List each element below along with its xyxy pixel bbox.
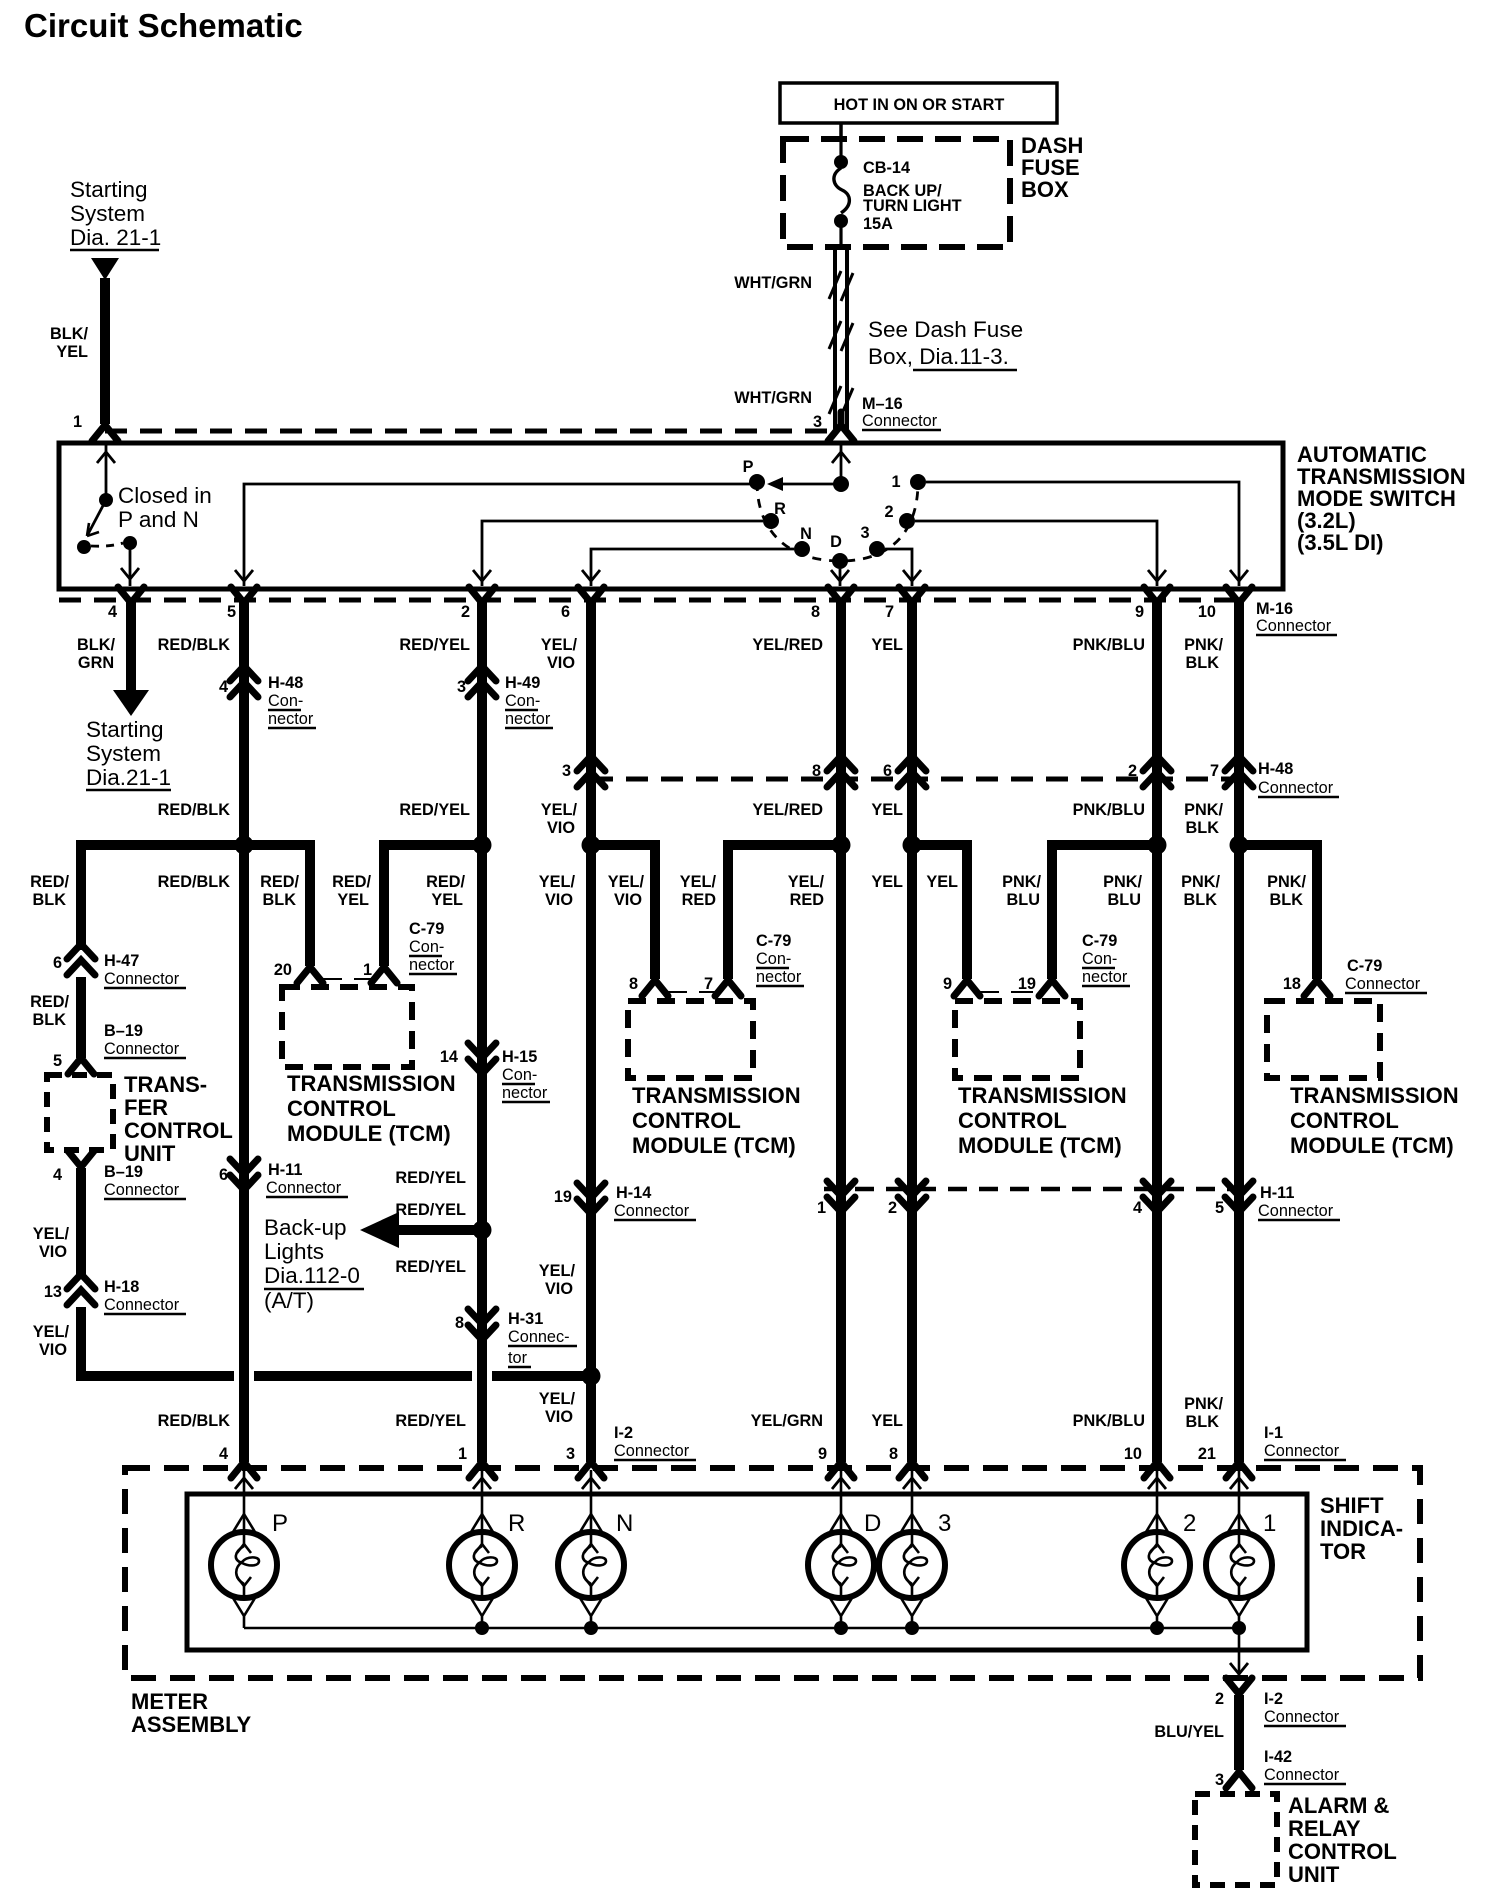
svg-text:RED/YEL: RED/YEL	[395, 1201, 466, 1219]
svg-text:H-11: H-11	[268, 1161, 302, 1179]
svg-text:5: 5	[1215, 1199, 1224, 1217]
svg-text:YEL/RED: YEL/RED	[752, 636, 823, 654]
svg-text:Connector: Connector	[104, 1040, 180, 1058]
svg-text:PNK/BLU: PNK/BLU	[1073, 1412, 1145, 1430]
svg-text:RED/BLK: RED/BLK	[158, 873, 231, 891]
connector line TCM2 pins	[665, 991, 718, 993]
connector H-49 pin 3	[457, 666, 553, 728]
wire bus to meter exit	[1230, 1628, 1248, 1677]
svg-text:1: 1	[458, 1445, 467, 1463]
svg-text:20: 20	[274, 961, 292, 979]
svg-text:YEL: YEL	[871, 636, 903, 654]
svg-text:(3.5L DI): (3.5L DI)	[1297, 530, 1383, 555]
pin 3 I-42	[1215, 1759, 1252, 1789]
pin 20 C-79	[274, 954, 323, 983]
transfer control unit box	[47, 1075, 113, 1150]
svg-text:YEL: YEL	[926, 873, 958, 891]
label I-2 connector bottom	[1264, 1690, 1346, 1726]
automatic transmission mode switch box	[59, 443, 1283, 589]
node backup lights junction	[473, 1221, 492, 1240]
svg-text:PNK/: PNK/	[1184, 636, 1223, 654]
label H-48 connector right	[1258, 760, 1339, 797]
svg-text:Connector: Connector	[1258, 779, 1334, 797]
label dash fuse box	[1021, 133, 1083, 202]
switch wiper arm	[767, 477, 841, 491]
lamp D	[808, 1470, 881, 1628]
pin 19 C-79 TCM3	[1018, 967, 1065, 996]
svg-text:TRANS-: TRANS-	[124, 1072, 207, 1097]
label YEL/RED x728	[680, 873, 717, 909]
svg-text:nector: nector	[502, 1084, 548, 1102]
svg-text:H-18: H-18	[104, 1278, 139, 1296]
label RED/YEL x384	[332, 873, 371, 909]
pin 2 I-2 bottom	[1215, 1678, 1252, 1708]
node junction YEL/VIO	[582, 836, 601, 855]
label YEL/VIO left lower	[33, 1323, 70, 1359]
pin D meter entry	[828, 1449, 854, 1478]
svg-text:PNK/: PNK/	[1181, 873, 1220, 891]
dash fuse box	[783, 139, 1010, 247]
svg-text:Connector: Connector	[1264, 1708, 1340, 1726]
label C-79 connector TCM4	[1345, 957, 1427, 993]
svg-text:H-15: H-15	[502, 1048, 537, 1066]
svg-text:YEL/: YEL/	[33, 1323, 70, 1341]
svg-text:nector: nector	[505, 710, 551, 728]
label meter assembly	[131, 1689, 252, 1737]
svg-text:H-11: H-11	[1260, 1184, 1294, 1202]
svg-text:TRANSMISSION: TRANSMISSION	[1290, 1083, 1459, 1108]
svg-text:Con-: Con-	[409, 938, 444, 956]
svg-text:19: 19	[1018, 975, 1036, 993]
svg-text:PNK/: PNK/	[1002, 873, 1041, 891]
svg-text:nector: nector	[268, 710, 314, 728]
connector H-15 pin 14	[440, 1043, 550, 1102]
svg-text:21: 21	[1198, 1445, 1216, 1463]
svg-text:M-16: M-16	[1256, 600, 1293, 618]
connector B-19 pin 5	[53, 1022, 186, 1074]
svg-text:RED/BLK: RED/BLK	[158, 801, 231, 819]
svg-text:Connec-: Connec-	[508, 1328, 570, 1346]
wire YEL/VIO x591 to meter	[586, 845, 596, 1462]
svg-text:ALARM &: ALARM &	[1288, 1793, 1390, 1818]
svg-text:1: 1	[73, 413, 82, 431]
label BLK/GRN	[77, 636, 115, 672]
wire contact P to pin 5	[235, 484, 750, 586]
svg-text:Con-: Con-	[1082, 950, 1117, 968]
note backup lights	[264, 1215, 364, 1313]
svg-text:nector: nector	[756, 968, 802, 986]
lamp 2	[1124, 1470, 1196, 1628]
svg-text:2: 2	[888, 1199, 897, 1217]
wire YEL/VIO bus right	[492, 1371, 588, 1381]
svg-text:RED/: RED/	[30, 993, 69, 1011]
wire BLK/YEL	[100, 278, 110, 424]
wire RED/YEL x482 to meter	[477, 845, 487, 1462]
label transfer control unit	[124, 1072, 233, 1166]
svg-text:BLK: BLK	[1184, 891, 1218, 909]
label I-1 connector	[1264, 1424, 1346, 1460]
svg-text:YEL: YEL	[56, 343, 88, 361]
svg-text:CONTROL: CONTROL	[632, 1108, 741, 1133]
pin 10 M-16	[1198, 587, 1252, 621]
svg-text:2: 2	[1183, 1510, 1196, 1537]
svg-text:VIO: VIO	[545, 891, 573, 909]
wire RED/BLK left column upper	[76, 845, 86, 950]
svg-text:PNK/: PNK/	[1267, 873, 1306, 891]
svg-text:P: P	[272, 1510, 288, 1537]
svg-text:18: 18	[1283, 975, 1301, 993]
svg-text:BLK: BLK	[1270, 891, 1304, 909]
svg-text:4: 4	[219, 678, 228, 696]
svg-text:BLU/YEL: BLU/YEL	[1154, 1723, 1224, 1741]
svg-text:RED/YEL: RED/YEL	[395, 1258, 466, 1276]
svg-text:CONTROL: CONTROL	[287, 1096, 396, 1121]
svg-text:Connector: Connector	[1258, 1202, 1334, 1220]
svg-text:nector: nector	[1082, 968, 1128, 986]
svg-text:YEL/: YEL/	[608, 873, 645, 891]
node bus N	[584, 1621, 598, 1635]
label CB-14 value	[863, 159, 962, 233]
hot in on or start box	[780, 83, 1057, 123]
wire branch bus PNK/BLK	[1239, 845, 1317, 979]
svg-text:RED/YEL: RED/YEL	[395, 1412, 466, 1430]
svg-text:BLK/: BLK/	[77, 636, 115, 654]
svg-text:B–19: B–19	[104, 1163, 143, 1181]
svg-text:H-48: H-48	[1258, 760, 1293, 778]
svg-text:UNIT: UNIT	[1288, 1862, 1340, 1887]
svg-text:4: 4	[53, 1166, 62, 1184]
note closed in P and N	[118, 483, 212, 532]
svg-text:YEL: YEL	[871, 873, 903, 891]
wire PNK/BLU pin9 down	[1152, 601, 1162, 845]
svg-text:BLK: BLK	[263, 891, 297, 909]
svg-text:D: D	[830, 533, 842, 551]
contact D	[830, 533, 848, 569]
contact 2	[884, 503, 915, 529]
label PNK/BLK row2	[1184, 801, 1223, 837]
svg-text:2: 2	[1128, 762, 1137, 780]
svg-text:MODULE (TCM): MODULE (TCM)	[632, 1133, 796, 1158]
svg-text:P: P	[743, 458, 754, 476]
label PNK/BLK x1317	[1267, 873, 1306, 909]
wire break marks	[829, 271, 853, 416]
svg-text:H-49: H-49	[505, 674, 540, 692]
wire YEL/VIO pin6 down	[586, 601, 596, 845]
svg-text:19: 19	[554, 1188, 572, 1206]
pin 3 H-48	[562, 756, 605, 787]
svg-text:Closed in: Closed in	[118, 483, 212, 508]
label PNK/BLK pin10	[1184, 636, 1223, 672]
svg-text:BOX: BOX	[1021, 177, 1069, 202]
svg-text:RED/BLK: RED/BLK	[158, 1412, 231, 1430]
lamp P	[211, 1470, 288, 1628]
svg-text:Circuit Schematic: Circuit Schematic	[24, 7, 303, 44]
wire contact N to pin 6	[582, 549, 794, 586]
label H-11 connector right	[1258, 1184, 1340, 1220]
wire common from pin3	[832, 445, 850, 478]
node bus 2	[1150, 1621, 1164, 1635]
svg-text:PNK/BLU: PNK/BLU	[1073, 801, 1145, 819]
wire PNK/BLK x1239 to meter	[1234, 845, 1244, 1462]
pin 1 H-11	[817, 1181, 855, 1217]
contact 3	[860, 524, 885, 557]
node junction PNK/BLK	[1230, 836, 1249, 855]
svg-text:RELAY: RELAY	[1288, 1816, 1361, 1841]
wire RED/BLK to B-19	[76, 977, 86, 1058]
connector line TCM1 pins	[320, 978, 374, 980]
svg-text:R: R	[508, 1510, 525, 1537]
svg-text:13: 13	[44, 1283, 62, 1301]
wire contact R to pin 2	[473, 521, 763, 586]
svg-text:Connector: Connector	[266, 1179, 342, 1197]
wire branch bus YEL/RED	[728, 845, 841, 979]
svg-text:3: 3	[860, 524, 869, 542]
svg-text:RED/: RED/	[30, 873, 69, 891]
pin 8 M-16	[811, 587, 854, 621]
svg-text:BLK: BLK	[1186, 1413, 1220, 1431]
pin 5 H-11	[1215, 1181, 1253, 1217]
pin 2 H-11	[888, 1181, 926, 1217]
wire contact D to pin 8	[831, 569, 849, 586]
svg-text:PNK/: PNK/	[1184, 1395, 1223, 1413]
connector H-47 pin 6	[53, 944, 186, 988]
svg-text:C-79: C-79	[409, 920, 444, 938]
svg-text:I-1: I-1	[1264, 1424, 1283, 1442]
note see dash fuse box	[868, 317, 1023, 370]
svg-text:7: 7	[704, 975, 713, 993]
node junction RED/YEL	[473, 836, 492, 855]
label TCM1	[287, 1071, 456, 1146]
label shift indicator	[1320, 1493, 1403, 1564]
svg-text:BLK: BLK	[1186, 819, 1220, 837]
label alarm relay control unit	[1288, 1793, 1397, 1887]
connector H-18 pin 13	[44, 1274, 186, 1314]
alarm relay control unit box	[1195, 1794, 1277, 1885]
transmission control module 4 box	[1267, 1001, 1380, 1078]
svg-text:8: 8	[812, 762, 821, 780]
svg-text:CONTROL: CONTROL	[958, 1108, 1067, 1133]
wire branch bus YEL/VIO	[591, 845, 655, 979]
svg-text:Con-: Con-	[756, 950, 791, 968]
wire RED/YEL pin2 down	[477, 601, 487, 845]
wire YEL/VIO bus middle	[254, 1371, 472, 1381]
svg-text:1: 1	[891, 473, 900, 491]
circuit breaker CB-14	[834, 139, 849, 247]
svg-text:Connector: Connector	[1264, 1442, 1340, 1460]
svg-text:BLU: BLU	[1007, 891, 1040, 909]
svg-text:VIO: VIO	[545, 1280, 573, 1298]
wire BLU/YEL	[1234, 1695, 1244, 1770]
svg-text:Starting: Starting	[86, 717, 164, 742]
label YEL/VIO row2	[541, 801, 578, 837]
svg-text:10: 10	[1124, 1445, 1142, 1463]
svg-text:Dia.112-0: Dia.112-0	[264, 1263, 360, 1288]
transmission control module 3 box	[955, 1001, 1080, 1078]
svg-text:3: 3	[566, 1445, 575, 1463]
svg-text:HOT IN ON OR START: HOT IN ON OR START	[834, 96, 1005, 114]
svg-text:1: 1	[1263, 1510, 1276, 1537]
lamp 3	[879, 1470, 951, 1628]
label C-79 connector TCM2	[756, 932, 804, 986]
connector M-16 top dashed line	[105, 429, 838, 434]
wire lamp common bus	[244, 1627, 1239, 1630]
shift indicator solid box	[187, 1494, 1307, 1650]
svg-text:Con-: Con-	[502, 1066, 537, 1084]
svg-text:8: 8	[811, 603, 820, 621]
svg-text:2: 2	[884, 503, 893, 521]
pin N meter entry	[578, 1449, 604, 1478]
svg-text:SHIFT: SHIFT	[1320, 1493, 1384, 1518]
wire contact 2 to pin 9	[915, 521, 1166, 586]
connector line TCM3 pins	[977, 991, 1042, 993]
wire YEL/RED x841 to meter	[836, 845, 846, 1462]
svg-text:6: 6	[561, 603, 570, 621]
svg-text:H-14: H-14	[616, 1184, 651, 1202]
node bus R	[475, 1621, 489, 1635]
svg-text:TOR: TOR	[1320, 1539, 1366, 1564]
svg-text:3: 3	[813, 413, 822, 431]
svg-text:M–16: M–16	[862, 395, 903, 413]
svg-text:WHT/GRN: WHT/GRN	[734, 389, 812, 407]
pin 6 M-16	[561, 587, 604, 621]
pin 7 M-16	[885, 587, 925, 621]
svg-text:C-79: C-79	[1082, 932, 1117, 950]
svg-text:1: 1	[817, 1199, 826, 1217]
svg-text:ASSEMBLY: ASSEMBLY	[131, 1712, 252, 1737]
svg-text:3: 3	[562, 762, 571, 780]
svg-text:4: 4	[1133, 1199, 1142, 1217]
svg-text:BLK: BLK	[1186, 654, 1220, 672]
svg-text:YEL/RED: YEL/RED	[752, 801, 823, 819]
svg-text:YEL/: YEL/	[680, 873, 717, 891]
svg-text:PNK/: PNK/	[1184, 801, 1223, 819]
label I-2 connector	[614, 1424, 696, 1460]
svg-text:YEL/: YEL/	[539, 873, 576, 891]
pin 8 H-48	[812, 756, 855, 787]
connector B-19 pin 4	[53, 1151, 186, 1199]
svg-text:See Dash Fuse: See Dash Fuse	[868, 317, 1023, 342]
svg-text:CONTROL: CONTROL	[124, 1118, 233, 1143]
switch rotation arc	[757, 482, 918, 561]
pin 1 meter entry	[1226, 1449, 1252, 1478]
svg-text:YEL/: YEL/	[33, 1225, 70, 1243]
pin 2 H-48	[1128, 756, 1171, 787]
wire branch bus YEL	[912, 845, 967, 979]
svg-text:(A/T): (A/T)	[264, 1288, 314, 1313]
svg-text:Connector: Connector	[614, 1202, 690, 1220]
svg-text:6: 6	[883, 762, 892, 780]
label YEL/VIO meter	[539, 1390, 576, 1426]
svg-text:14: 14	[440, 1048, 458, 1066]
svg-text:Dia. 21-1: Dia. 21-1	[70, 225, 161, 250]
wire BLK/GRN to starting system	[113, 601, 149, 716]
svg-text:YEL: YEL	[871, 801, 903, 819]
wire backup lights arrow	[360, 1212, 474, 1248]
wire WHT/GRN double line fuse box to M-16	[835, 247, 847, 429]
transmission control module 2 box	[628, 1001, 753, 1078]
svg-text:3: 3	[938, 1510, 951, 1537]
svg-text:CONTROL: CONTROL	[1288, 1839, 1397, 1864]
svg-text:P and N: P and N	[118, 507, 199, 532]
svg-text:8: 8	[629, 975, 638, 993]
svg-text:System: System	[70, 201, 145, 226]
svg-text:9: 9	[1135, 603, 1144, 621]
svg-text:YEL/: YEL/	[541, 636, 578, 654]
node junction RED/BLK	[235, 836, 254, 855]
label RED/YEL x482	[426, 873, 465, 909]
svg-text:METER: METER	[131, 1689, 208, 1714]
connector H-14 pin 19	[554, 1183, 696, 1220]
svg-text:Connector: Connector	[1264, 1766, 1340, 1784]
pin 3 meter entry	[899, 1449, 925, 1478]
wire YEL/VIO left column	[76, 1168, 86, 1278]
label YEL/VIO x591	[539, 873, 576, 909]
connector H-11 dashed line right	[824, 1187, 1241, 1192]
wire branch bus RED/YEL	[384, 845, 482, 966]
node starting system lower	[86, 717, 171, 790]
wire contact 3 to pin 7	[885, 549, 921, 586]
svg-text:YEL/: YEL/	[539, 1390, 576, 1408]
label YEL/VIO left upper	[33, 1225, 70, 1261]
svg-text:7: 7	[885, 603, 894, 621]
lamp 1	[1206, 1470, 1276, 1628]
svg-text:YEL/GRN: YEL/GRN	[751, 1412, 823, 1430]
svg-text:GRN: GRN	[78, 654, 114, 672]
label I-42 connector	[1264, 1748, 1346, 1784]
svg-text:MODULE (TCM): MODULE (TCM)	[1290, 1133, 1454, 1158]
connector H-31 pin 8	[455, 1309, 577, 1367]
svg-text:VIO: VIO	[545, 1408, 573, 1426]
pin 7 H-48	[1210, 756, 1253, 787]
node junction PNK/BLU	[1148, 836, 1167, 855]
svg-text:5: 5	[227, 603, 236, 621]
svg-text:Back-up: Back-up	[264, 1215, 347, 1240]
svg-text:YEL: YEL	[431, 891, 463, 909]
label YEL/RED x841	[788, 873, 825, 909]
pin 8 C-79 TCM2	[629, 967, 668, 996]
wire RED/BLK x244 to meter	[239, 845, 249, 1462]
svg-text:2: 2	[1215, 1690, 1224, 1708]
svg-text:FER: FER	[124, 1095, 168, 1120]
svg-text:Connector: Connector	[104, 1296, 180, 1314]
connector M-16 lower dashed line	[59, 598, 1247, 603]
svg-text:RED/YEL: RED/YEL	[399, 636, 470, 654]
svg-text:RED: RED	[790, 891, 825, 909]
pin 2 M-16	[461, 587, 495, 621]
label C-79 connector TCM3	[1082, 932, 1130, 986]
wire YEL x912 to meter	[907, 845, 917, 1462]
svg-text:Connector: Connector	[104, 970, 180, 988]
node YEL/VIO junction	[582, 1367, 601, 1386]
pin 4 M-16	[108, 587, 144, 621]
pin R meter entry	[469, 1449, 495, 1478]
node junction YEL/RED	[832, 836, 851, 855]
pin 7 C-79 TCM2	[704, 967, 741, 996]
contact R	[763, 500, 786, 529]
wire YEL pin7 down	[907, 601, 917, 845]
contact P	[743, 458, 765, 490]
svg-text:Connector: Connector	[1345, 975, 1421, 993]
svg-text:Box, Dia.11-3.: Box, Dia.11-3.	[868, 344, 1009, 369]
wire hot box to fuse box	[839, 123, 843, 139]
label TCM4	[1290, 1083, 1459, 1158]
svg-text:Connector: Connector	[104, 1181, 180, 1199]
label RED/BLK B-19	[30, 993, 69, 1029]
pin 4 H-11	[1133, 1181, 1171, 1217]
lamp N	[558, 1470, 633, 1628]
svg-text:9: 9	[818, 1445, 827, 1463]
svg-text:Connector: Connector	[1256, 617, 1332, 635]
